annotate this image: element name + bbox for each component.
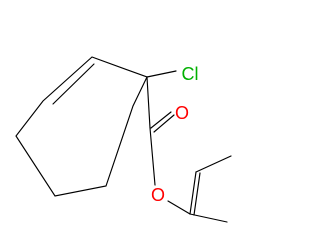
svg-text:Cl: Cl — [182, 64, 199, 84]
svg-text:O: O — [175, 103, 189, 123]
svg-text:O: O — [151, 185, 165, 205]
